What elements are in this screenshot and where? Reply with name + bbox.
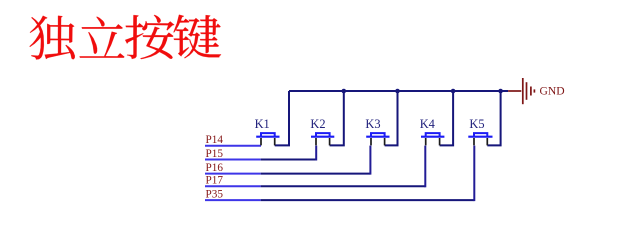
wire P16 riser to K3 pin [369, 146, 371, 175]
svg-text:P15: P15 [206, 148, 224, 160]
title char 按 [125, 15, 174, 59]
wire P15 riser to K2 pin [315, 146, 317, 161]
svg-text:K2: K2 [310, 117, 325, 131]
wire P16 segment to K3 [261, 173, 371, 175]
wire K1 to bus [275, 91, 289, 145]
ground GND symbol [508, 78, 534, 104]
title char 立 [80, 17, 125, 58]
svg-text:GND: GND [540, 85, 565, 98]
wire P15 segment [205, 159, 261, 161]
title 独立按键 [30, 15, 222, 60]
wire K3 to bus [385, 91, 398, 145]
wire P35 segment [205, 199, 261, 201]
wire P17 riser to K4 pin [424, 146, 426, 188]
svg-text:K4: K4 [420, 117, 435, 131]
svg-text:K3: K3 [365, 117, 380, 131]
svg-text:P17: P17 [206, 175, 224, 187]
svg-text:P35: P35 [206, 189, 224, 201]
junction at K5 riser [498, 89, 503, 94]
wire K4 to bus [440, 91, 454, 145]
svg-text:P14: P14 [206, 134, 224, 146]
wire P35 segment to K5 [261, 199, 475, 201]
switch K1 [256, 133, 279, 145]
junction at K3 riser [395, 89, 400, 94]
svg-text:K1: K1 [255, 117, 270, 131]
title char 独 [30, 16, 75, 60]
wire P16 segment [205, 173, 261, 175]
wire K2 to bus [330, 91, 344, 145]
switch K3 [366, 133, 389, 145]
svg-text:K5: K5 [469, 117, 484, 131]
title char 键 [174, 15, 222, 59]
wire K5 to bus [487, 91, 500, 145]
junction at K4 riser [451, 89, 456, 94]
wire GND bus [289, 90, 508, 92]
switch K2 [311, 133, 334, 145]
switch K4 [421, 133, 444, 145]
wire P14 to K1 [205, 145, 261, 147]
junction at K2 riser [342, 89, 347, 94]
svg-text:P16: P16 [206, 162, 224, 174]
wire P17 segment to K4 [261, 185, 426, 187]
switch K5 [468, 133, 492, 145]
wire P35 riser to K5 pin [473, 146, 475, 202]
wire P17 segment [205, 185, 261, 187]
wire P15 segment to K2 [261, 159, 317, 161]
